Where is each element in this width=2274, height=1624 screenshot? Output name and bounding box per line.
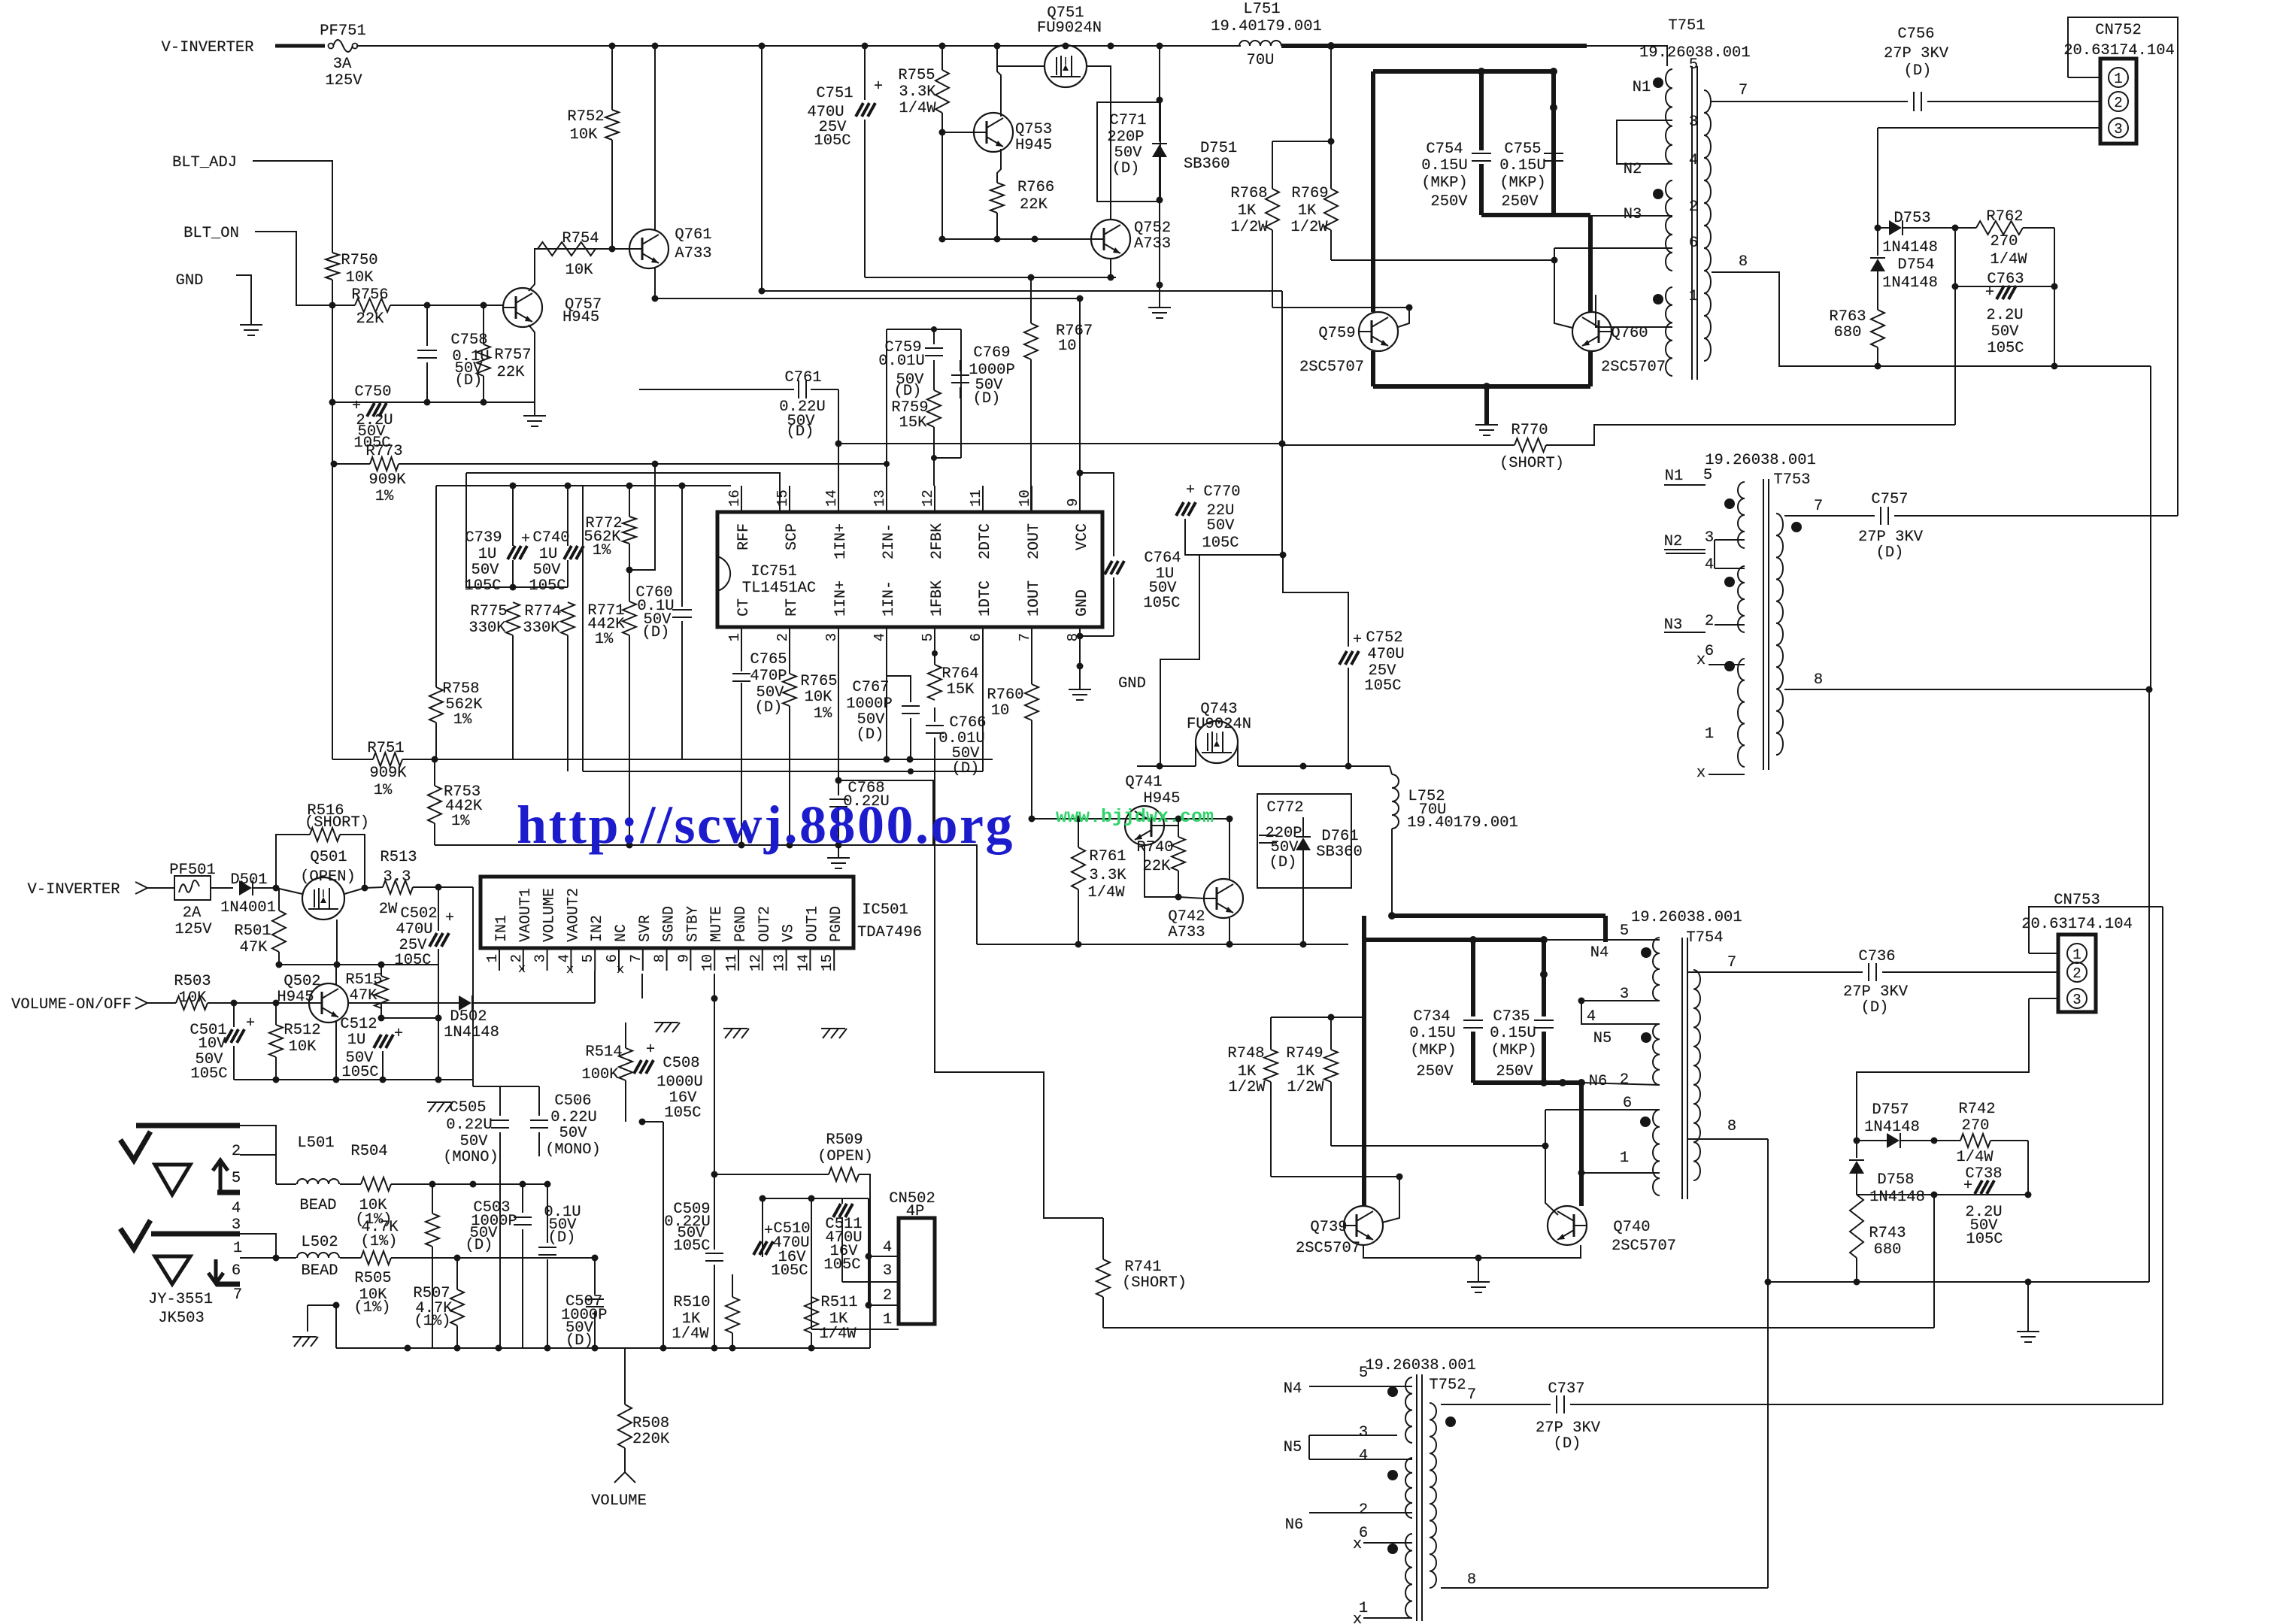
svg-text:T753: T753 — [1773, 471, 1810, 489]
svg-text:1: 1 — [2114, 71, 2122, 87]
wire — [344, 888, 365, 894]
wire — [1271, 1176, 1399, 1177]
wire CN753 pin1 outer — [2029, 953, 2058, 954]
wire gate row — [276, 964, 438, 965]
resistor R769 — [1330, 46, 1332, 140]
svg-text:2: 2 — [2072, 965, 2081, 982]
svg-text:x: x — [617, 963, 624, 977]
svg-text:N5: N5 — [1284, 1439, 1302, 1456]
svg-text:250V: 250V — [1501, 193, 1539, 211]
wire — [1857, 1194, 2028, 1195]
wire rail y629 — [466, 473, 780, 512]
svg-text:SB360: SB360 — [1316, 844, 1363, 861]
svg-text:1K: 1K — [1298, 202, 1317, 220]
IC501 pin 3 (VOLUME) — [547, 948, 548, 971]
IC751 pin 12 (2FBK) — [934, 486, 935, 512]
svg-text:L501: L501 — [297, 1135, 334, 1152]
wire T754 pin2 — [1581, 1083, 1660, 1085]
svg-text:250V: 250V — [1416, 1063, 1454, 1080]
svg-text:1K: 1K — [1296, 1063, 1315, 1080]
wire — [1272, 141, 1331, 142]
svg-text:250V: 250V — [1496, 1063, 1533, 1080]
svg-text:C735: C735 — [1493, 1008, 1530, 1026]
svg-text:PGND: PGND — [828, 906, 845, 942]
wire — [390, 304, 504, 306]
diode D753 — [1889, 220, 1902, 235]
wire — [811, 1198, 812, 1329]
wire — [1164, 825, 1178, 826]
svg-text:3: 3 — [232, 1216, 241, 1234]
wire — [1705, 424, 1955, 426]
svg-text:3A: 3A — [333, 56, 352, 73]
winding dot — [1724, 498, 1735, 509]
IC751 pin 3 (1IN+) — [838, 627, 839, 650]
wire C770 — [1185, 519, 1199, 555]
svg-text:VAOUT1: VAOUT1 — [517, 888, 535, 942]
wire MUTE run — [714, 974, 715, 1174]
wire SVR/SGND grounds — [654, 1022, 678, 1023]
wire — [997, 45, 1160, 47]
svg-text:(MKP): (MKP) — [1410, 1042, 1457, 1059]
svg-text:2A: 2A — [183, 904, 202, 922]
ground — [236, 275, 251, 325]
svg-text:C771: C771 — [1109, 112, 1146, 129]
wire R753 bottom rail under url — [435, 845, 977, 944]
svg-text:19.26038.001: 19.26038.001 — [1365, 1357, 1476, 1374]
svg-text:Q761: Q761 — [675, 226, 711, 244]
svg-text:1FBK: 1FBK — [929, 580, 946, 617]
resistor R752 — [611, 46, 613, 110]
IC501 pin 12 (OUT2) — [762, 948, 763, 971]
svg-text:50V: 50V — [533, 562, 562, 579]
wire Q501 gate — [336, 920, 338, 965]
wire — [2148, 689, 2150, 1282]
pin 3 — [2109, 118, 2128, 138]
resistor R757 — [483, 305, 484, 344]
svg-text:2: 2 — [2114, 95, 2122, 111]
svg-text:8: 8 — [1739, 253, 1748, 271]
svg-text:1IN+: 1IN+ — [832, 523, 850, 559]
svg-text:2: 2 — [508, 954, 525, 962]
pin 1 — [2109, 68, 2128, 87]
resistor R753 — [428, 786, 441, 823]
transistor Q752 — [1091, 220, 1130, 259]
resistor R749 — [1330, 1017, 1332, 1050]
wire — [1331, 1145, 1545, 1147]
svg-text:C761: C761 — [784, 369, 821, 386]
wire bottom network bus — [1768, 1281, 2149, 1283]
svg-text:VOLUME: VOLUME — [541, 888, 559, 942]
wire — [147, 887, 175, 889]
wire thick to T751 — [1281, 44, 1587, 48]
svg-text:R754: R754 — [562, 230, 599, 247]
wire node to R767 — [865, 277, 1116, 278]
winding dot — [1653, 294, 1663, 304]
svg-text:50V: 50V — [1207, 517, 1236, 535]
svg-text:10K: 10K — [179, 989, 208, 1007]
svg-text:H945: H945 — [562, 309, 599, 326]
svg-text:C752: C752 — [1366, 629, 1402, 647]
svg-text:2.2U: 2.2U — [1986, 307, 2023, 324]
IC op-amp IC751 box — [717, 512, 1102, 627]
wire — [1331, 259, 1554, 261]
svg-text:22K: 22K — [1020, 196, 1048, 214]
winding dot — [1791, 522, 1802, 532]
svg-text:1/2W: 1/2W — [1290, 219, 1328, 236]
svg-text:5: 5 — [920, 633, 936, 641]
wire — [147, 1002, 176, 1004]
svg-text:15: 15 — [775, 489, 791, 507]
svg-text:11: 11 — [723, 954, 740, 971]
svg-text:13: 13 — [772, 954, 788, 971]
svg-text:10: 10 — [1017, 489, 1033, 507]
resistor R503 — [176, 996, 208, 1010]
svg-text:C739: C739 — [465, 529, 502, 547]
capacitor C766 — [926, 725, 944, 726]
wire — [762, 46, 1282, 291]
svg-text:VS: VS — [781, 924, 798, 942]
transistor Q757 — [503, 288, 542, 327]
wire pin1 — [1363, 1617, 1412, 1619]
svg-text:0.22U: 0.22U — [550, 1109, 597, 1126]
resistor R764 — [934, 650, 935, 665]
svg-text:3: 3 — [532, 954, 549, 962]
winding dot — [1387, 1544, 1398, 1554]
wire — [255, 232, 355, 305]
thick emitter bottom bus — [1373, 384, 1590, 389]
svg-text:R743: R743 — [1869, 1225, 1906, 1242]
svg-text:7: 7 — [1467, 1386, 1476, 1404]
svg-text:10V: 10V — [199, 1035, 227, 1053]
svg-text:4: 4 — [1587, 1008, 1596, 1026]
svg-text:L751: L751 — [1243, 1, 1280, 18]
thick H-bridge lower — [1364, 938, 1544, 942]
svg-text:VOLUME: VOLUME — [591, 1492, 647, 1510]
svg-text:C734: C734 — [1413, 1008, 1450, 1026]
svg-text:R510: R510 — [673, 1294, 710, 1311]
svg-text:IN2: IN2 — [589, 915, 606, 942]
wire CN502 pins — [869, 1256, 899, 1257]
svg-text:1/2W: 1/2W — [1230, 219, 1268, 236]
wire — [275, 44, 325, 48]
wire Q761 collector — [654, 46, 656, 230]
svg-text:N4: N4 — [1590, 944, 1609, 962]
IC501 pin 13 (VS) — [786, 948, 787, 971]
svg-text:(MKP): (MKP) — [1490, 1042, 1537, 1059]
svg-text:(D): (D) — [548, 1229, 576, 1247]
capacitor C771 box — [1097, 102, 1160, 201]
svg-text:+: + — [246, 1015, 255, 1032]
svg-text:7: 7 — [1739, 82, 1748, 99]
svg-text:15K: 15K — [899, 414, 928, 432]
wire bottom row — [234, 1079, 438, 1080]
svg-text:2IN-: 2IN- — [881, 523, 898, 559]
svg-text:(MKP): (MKP) — [1421, 174, 1468, 192]
winding dot — [1641, 947, 1651, 958]
svg-text:125V: 125V — [174, 921, 212, 938]
wire Q760 collector — [1588, 351, 1593, 386]
svg-text:N1: N1 — [1665, 468, 1684, 485]
svg-text:N3: N3 — [1624, 206, 1642, 223]
wire T751 pin6 — [1554, 247, 1672, 249]
transistor Q741 — [1125, 806, 1164, 845]
resistor R754 — [538, 242, 596, 256]
svg-text:220P: 220P — [1107, 129, 1144, 146]
svg-text:2SC5707: 2SC5707 — [1612, 1238, 1676, 1255]
svg-text:(MONO): (MONO) — [545, 1141, 601, 1159]
svg-text:Q740: Q740 — [1613, 1219, 1650, 1236]
svg-text:http://scwj.8800.org: http://scwj.8800.org — [517, 795, 1014, 855]
svg-text:47K: 47K — [240, 939, 268, 956]
svg-text:27P 3KV: 27P 3KV — [1858, 529, 1924, 546]
svg-text:R503: R503 — [174, 973, 211, 990]
svg-text:125V: 125V — [325, 72, 362, 89]
capacitor C765 — [741, 650, 742, 671]
svg-text:2FBK: 2FBK — [929, 523, 946, 559]
svg-text:R515: R515 — [345, 971, 382, 989]
transistor Q761 — [629, 229, 669, 268]
svg-text:(OPEN): (OPEN) — [300, 868, 356, 886]
svg-text:4: 4 — [872, 633, 888, 641]
resistor R761 — [1072, 847, 1085, 889]
svg-text:www.bjjdwx.com: www.bjjdwx.com — [1056, 806, 1214, 828]
resistor R513 — [383, 880, 413, 894]
svg-text:BEAD: BEAD — [299, 1197, 336, 1214]
svg-text:22K: 22K — [1143, 858, 1172, 875]
svg-text:Q752: Q752 — [1134, 220, 1171, 237]
svg-text:(1%): (1%) — [360, 1233, 397, 1250]
resistor R758 — [429, 687, 443, 723]
svg-text:R764: R764 — [941, 665, 978, 683]
svg-text:12: 12 — [747, 954, 764, 971]
wire — [629, 635, 630, 845]
wire Q751 drain — [1087, 66, 1111, 220]
svg-text:19.26038.001: 19.26038.001 — [1705, 452, 1816, 469]
svg-text:1/4W: 1/4W — [819, 1326, 857, 1343]
svg-text:19.26038.001: 19.26038.001 — [1631, 909, 1742, 926]
svg-text:VCC: VCC — [1074, 523, 1091, 550]
svg-text:0.15U: 0.15U — [1409, 1025, 1456, 1042]
svg-text:+: + — [874, 78, 883, 95]
svg-text:IC751: IC751 — [750, 563, 797, 580]
IC751 pin 11 (2DTC) — [982, 486, 984, 512]
wire — [1545, 1110, 1558, 1215]
IC501 pin 9 (STBY) — [690, 948, 691, 971]
svg-text:3: 3 — [2072, 992, 2081, 1008]
svg-text:SVR: SVR — [637, 915, 654, 942]
svg-text:N4: N4 — [1284, 1380, 1302, 1398]
wire pin6 — [1363, 1542, 1412, 1544]
wire T754 pin3/4 link — [1581, 1001, 1660, 1024]
svg-text:R773: R773 — [365, 443, 402, 460]
svg-text:105C: 105C — [190, 1065, 227, 1083]
svg-text:R751: R751 — [367, 740, 404, 757]
IC751 pin 2 (RT) — [789, 627, 790, 650]
diode D502 — [381, 1003, 382, 1018]
svg-text:1000P: 1000P — [846, 695, 893, 713]
svg-text:TDA7496: TDA7496 — [857, 924, 922, 941]
svg-text:2OUT: 2OUT — [1026, 523, 1043, 559]
wire pin3 run — [838, 650, 839, 771]
IC501 pin 1 (IN1) — [499, 948, 500, 971]
svg-text:(SHORT): (SHORT) — [305, 814, 369, 832]
svg-text:R508: R508 — [632, 1415, 669, 1432]
winding dot — [1653, 77, 1663, 88]
svg-text:D757: D757 — [1872, 1101, 1909, 1119]
wire — [332, 465, 333, 759]
svg-text:VAOUT2: VAOUT2 — [565, 888, 582, 942]
svg-text:1U: 1U — [539, 546, 558, 563]
resistor R750 — [326, 253, 339, 280]
svg-text:0.15U: 0.15U — [1490, 1025, 1536, 1042]
wire T751 pin3 — [1617, 120, 1672, 143]
svg-text:27P 3KV: 27P 3KV — [1884, 45, 1949, 62]
wire CT/RT node — [629, 464, 655, 570]
svg-text:105C: 105C — [1143, 595, 1180, 612]
svg-text:1N4148: 1N4148 — [1869, 1189, 1925, 1206]
wire T751 pin2/N3 — [1590, 215, 1672, 217]
wire — [977, 944, 1348, 945]
svg-text:2SC5707: 2SC5707 — [1296, 1240, 1360, 1257]
svg-text:x: x — [1696, 652, 1705, 669]
svg-text:7: 7 — [233, 1286, 242, 1304]
svg-text:D753: D753 — [1893, 210, 1930, 227]
svg-text:10K: 10K — [570, 126, 599, 144]
svg-text:MUTE: MUTE — [708, 906, 726, 942]
svg-text:1IN-: 1IN- — [881, 580, 898, 617]
winding dot — [1387, 1470, 1398, 1480]
svg-text:1N4148: 1N4148 — [1882, 239, 1938, 256]
svg-text:1%: 1% — [814, 705, 832, 723]
resistor R741 — [1102, 1218, 1104, 1259]
svg-text:N6: N6 — [1285, 1516, 1304, 1534]
IC751 pin 7 (1OUT) — [1031, 627, 1032, 650]
svg-text:1/4W: 1/4W — [899, 100, 936, 117]
wire VS feed — [472, 887, 474, 1086]
svg-text:R512: R512 — [283, 1022, 320, 1039]
svg-text:15K: 15K — [947, 681, 975, 698]
svg-text:D761: D761 — [1321, 828, 1358, 845]
svg-text:(D): (D) — [455, 372, 483, 389]
wire N1 — [1664, 484, 1705, 486]
IC751 pin 8 (GND) — [1079, 627, 1081, 650]
wire jack1 — [240, 1126, 276, 1155]
resistor R766 — [990, 183, 1004, 213]
capacitor C772 box — [1257, 794, 1351, 888]
svg-text:GND: GND — [176, 272, 204, 289]
ground — [1148, 307, 1171, 308]
wire jack2 — [240, 1234, 276, 1258]
wire base bus Q759 — [1272, 307, 1409, 308]
svg-text:8: 8 — [652, 954, 669, 962]
winding dot — [1387, 1386, 1398, 1397]
svg-text:(D): (D) — [1876, 544, 1904, 562]
svg-text:1/2W: 1/2W — [1287, 1079, 1324, 1096]
svg-text:(D): (D) — [1554, 1435, 1581, 1453]
svg-text:SGND: SGND — [661, 906, 678, 942]
wire — [334, 463, 370, 465]
svg-text:12: 12 — [920, 489, 936, 507]
capacitor C734 — [1463, 1020, 1483, 1021]
wire Q502 collector — [335, 965, 337, 985]
svg-text:2DTC: 2DTC — [977, 523, 994, 559]
svg-text:(D): (D) — [857, 726, 884, 744]
svg-text:L502: L502 — [301, 1234, 338, 1251]
resistor R751 — [373, 753, 402, 766]
svg-text:T751: T751 — [1668, 17, 1705, 35]
svg-text:A733: A733 — [1134, 235, 1171, 253]
audio jack JK503 upper — [120, 1132, 150, 1160]
svg-text:1: 1 — [1689, 288, 1698, 305]
wire — [641, 974, 643, 998]
svg-text:10: 10 — [1058, 338, 1077, 355]
svg-text:N2: N2 — [1664, 533, 1683, 550]
svg-text:6: 6 — [968, 633, 984, 641]
resistor R763 — [1871, 310, 1884, 347]
svg-text:5: 5 — [232, 1170, 241, 1187]
wire T753 pin1 — [1709, 774, 1745, 775]
svg-text:270: 270 — [1962, 1117, 1990, 1135]
resistor R767 — [1024, 323, 1038, 359]
wire VCC feed rail — [655, 298, 1079, 299]
wire pin14 to C761 rail — [838, 444, 839, 486]
diode D501 — [211, 887, 233, 889]
svg-text:CT: CT — [735, 598, 753, 617]
wire — [1271, 1017, 1364, 1018]
svg-text:D758: D758 — [1877, 1171, 1914, 1189]
svg-text:PF751: PF751 — [320, 23, 366, 40]
wire N2 step — [1664, 549, 1705, 550]
svg-text:H945: H945 — [1143, 790, 1180, 807]
wire N4 — [1309, 1386, 1412, 1387]
IC501 pin 11 (PGND) — [738, 948, 739, 971]
svg-text:(D): (D) — [952, 760, 980, 777]
svg-text:C506: C506 — [554, 1092, 591, 1110]
svg-text:1/4W: 1/4W — [672, 1326, 709, 1343]
svg-text:1000U: 1000U — [656, 1074, 703, 1091]
wire — [942, 132, 974, 133]
svg-text:2: 2 — [883, 1287, 892, 1304]
fuse PF751 — [329, 44, 334, 49]
pin 2 — [2109, 92, 2128, 111]
resistor R760 — [1031, 650, 1032, 684]
svg-text:+: + — [646, 1041, 655, 1059]
IC751 pin 14 (1IN+) — [838, 486, 839, 512]
svg-text:R757: R757 — [494, 347, 531, 364]
wire long bottom rail — [1103, 1327, 1934, 1329]
svg-text:PGND: PGND — [732, 906, 750, 942]
wire CN752 outer — [2068, 77, 2100, 78]
wire — [2054, 286, 2055, 366]
svg-text:1K: 1K — [1238, 1063, 1257, 1080]
svg-text:105C: 105C — [341, 1064, 378, 1081]
svg-text:+: + — [1186, 482, 1195, 499]
svg-text:1OUT: 1OUT — [1026, 580, 1043, 617]
wire R770 run — [1514, 438, 1546, 452]
wire — [332, 280, 333, 465]
svg-text:V-INVERTER: V-INVERTER — [161, 39, 253, 56]
svg-text:50V: 50V — [1114, 144, 1143, 162]
svg-text:+: + — [1963, 1177, 1972, 1195]
svg-text:15: 15 — [819, 954, 835, 971]
svg-text:13: 13 — [872, 489, 888, 507]
capacitor C754 — [1472, 153, 1491, 154]
IC501 pin 14 (OUT1) — [809, 948, 811, 971]
ground — [523, 415, 546, 417]
svg-text:R752: R752 — [567, 108, 604, 126]
svg-text:SCP: SCP — [784, 523, 801, 550]
IC501 pin 7 (SVR) — [642, 948, 644, 971]
